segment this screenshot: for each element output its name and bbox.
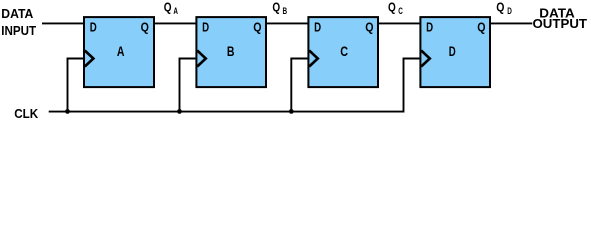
svg-text:C: C xyxy=(398,6,403,16)
svg-text:Q: Q xyxy=(388,1,396,15)
svg-text:D: D xyxy=(202,19,209,34)
wire FF A Q to FF B D xyxy=(154,22,197,24)
junction dot 1 xyxy=(65,109,70,114)
svg-text:Q: Q xyxy=(365,19,373,34)
clock input chevron C xyxy=(309,51,318,67)
wire CLK bus xyxy=(49,59,421,112)
flip-flop B body xyxy=(196,17,266,87)
wire clock riser to FF A xyxy=(68,59,85,112)
svg-text:DATA: DATA xyxy=(1,6,34,21)
flip-flop B xyxy=(196,17,266,87)
clock input chevron D xyxy=(421,51,430,67)
junction dot 3 xyxy=(289,109,294,114)
node QC label xyxy=(388,1,403,16)
svg-text:D: D xyxy=(314,19,321,34)
flip-flop C xyxy=(308,17,378,87)
junction dot 2 xyxy=(177,109,182,114)
svg-text:D: D xyxy=(449,44,456,59)
svg-text:C: C xyxy=(340,44,348,59)
svg-text:INPUT: INPUT xyxy=(1,23,36,38)
svg-text:B: B xyxy=(283,6,288,16)
wire FF B Q to FF C D xyxy=(266,22,309,24)
node QA label xyxy=(164,1,179,16)
svg-text:Q: Q xyxy=(141,19,149,34)
svg-text:D: D xyxy=(507,6,512,16)
wire FF D Q to data output xyxy=(490,22,533,24)
flip-flop C body xyxy=(308,17,378,87)
flip-flop A body xyxy=(84,17,154,87)
wire clock riser to FF B xyxy=(180,59,197,112)
svg-text:Q: Q xyxy=(477,19,485,34)
wire FF C Q to FF D D xyxy=(378,22,421,24)
svg-text:Q: Q xyxy=(272,1,280,15)
flip-flop D xyxy=(420,17,490,87)
svg-text:A: A xyxy=(173,6,178,16)
clock input chevron B xyxy=(197,51,206,67)
svg-text:B: B xyxy=(227,44,235,59)
flip-flop D body xyxy=(420,17,490,87)
node DATA OUTPUT label xyxy=(533,5,588,31)
clock input chevron A xyxy=(85,51,94,67)
wire data input to FF A xyxy=(42,22,85,24)
flip-flop A xyxy=(84,17,154,87)
node QB label xyxy=(272,1,287,16)
node DATA INPUT label xyxy=(1,6,36,38)
svg-text:OUTPUT: OUTPUT xyxy=(533,16,588,31)
svg-text:Q: Q xyxy=(496,1,504,15)
wire clock riser to FF C xyxy=(291,59,309,112)
svg-text:CLK: CLK xyxy=(14,106,39,120)
node QD label xyxy=(496,1,512,16)
svg-text:Q: Q xyxy=(164,1,172,15)
svg-text:D: D xyxy=(90,19,97,34)
svg-text:Q: Q xyxy=(253,19,261,34)
svg-text:D: D xyxy=(426,19,433,34)
svg-text:A: A xyxy=(117,44,125,59)
